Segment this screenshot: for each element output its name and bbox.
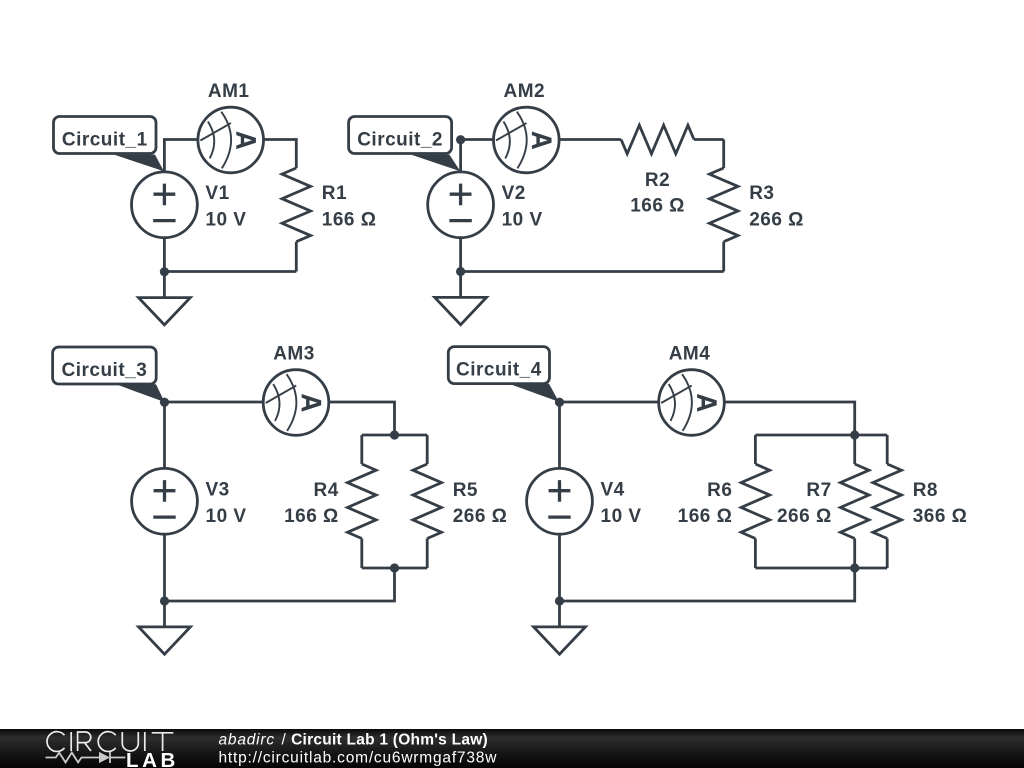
svg-text:266 Ω: 266 Ω — [749, 209, 804, 230]
svg-text:R4: R4 — [314, 480, 339, 501]
svg-text:http://circuitlab.com/cu6wrmga: http://circuitlab.com/cu6wrmgaf738w — [219, 749, 498, 766]
node junction circuit 2 top — [456, 135, 465, 144]
wire parallel top bar circuit 3 — [362, 434, 427, 437]
resistor R3 266 ohm — [709, 140, 804, 272]
svg-text:10 V: 10 V — [205, 209, 246, 230]
resistor R6 166 ohm — [678, 435, 770, 568]
ammeter AM1 — [198, 81, 264, 173]
voltage source V1 — [132, 172, 247, 238]
ammeter AM2 — [494, 81, 560, 173]
svg-text:R6: R6 — [707, 480, 732, 501]
voltage source V3 — [132, 468, 247, 534]
ground circuit 3 — [139, 601, 191, 654]
wire bottom rail circuit 2 — [461, 270, 724, 273]
ground circuit 1 — [139, 272, 191, 325]
svg-text:10 V: 10 V — [502, 209, 543, 230]
wire V1 top to AM1 — [164, 140, 197, 172]
svg-text:V2: V2 — [502, 183, 526, 204]
svg-text:R5: R5 — [453, 480, 478, 501]
resistor R1 166 ohm — [282, 140, 377, 272]
svg-text:Circuit_1: Circuit_1 — [62, 130, 148, 151]
resistor R7 266 ohm — [777, 435, 869, 568]
svg-text:R2: R2 — [645, 170, 670, 191]
node junction circuit 3 bottom — [160, 596, 169, 605]
svg-text:R3: R3 — [749, 183, 774, 204]
svg-text:V1: V1 — [205, 183, 229, 204]
ammeter AM3 — [263, 343, 329, 435]
label callout Circuit_2 — [349, 117, 461, 172]
node junction parallel bottom circuit 4 — [850, 563, 859, 572]
node junction parallel bottom circuit 3 — [390, 563, 399, 572]
resistor R4 166 ohm — [284, 435, 376, 568]
resistor R5 266 ohm — [413, 435, 508, 568]
wire V2 bottom — [459, 238, 462, 272]
label callout Circuit_3 — [53, 347, 165, 402]
wire V3 bottom — [163, 534, 166, 601]
svg-text:Circuit_3: Circuit_3 — [61, 360, 147, 381]
wire V4 bottom — [558, 534, 561, 601]
wire V3 top to AM3 — [165, 402, 264, 468]
svg-text:/: / — [282, 732, 287, 749]
svg-text:R8: R8 — [913, 480, 938, 501]
resistor R2 166 ohm (wire AM2-R2-corner) — [559, 125, 724, 216]
wire bottom rail circuit 1 — [164, 270, 296, 273]
svg-text:166 Ω: 166 Ω — [322, 209, 377, 230]
wire parallel bottom bar circuit 3 — [362, 567, 427, 570]
svg-text:AM3: AM3 — [273, 343, 315, 364]
label callout Circuit_1 — [54, 117, 164, 172]
svg-text:AM2: AM2 — [503, 81, 545, 102]
node junction circuit 3 top — [160, 398, 169, 407]
svg-text:V3: V3 — [206, 480, 230, 501]
resistor R8 366 ohm — [873, 435, 968, 568]
label callout Circuit_4 — [448, 347, 559, 402]
wire V2 top to AM2 — [461, 140, 494, 172]
svg-text:R7: R7 — [806, 480, 831, 501]
svg-text:Circuit_4: Circuit_4 — [456, 360, 542, 381]
wire V1 bottom — [163, 238, 166, 272]
voltage source V4 — [527, 468, 642, 534]
svg-text:266 Ω: 266 Ω — [777, 506, 832, 527]
ground circuit 2 — [435, 272, 487, 325]
wire AM4 to parallel top — [724, 402, 854, 435]
svg-text:10 V: 10 V — [206, 506, 247, 527]
node junction circuit 1 bottom — [160, 267, 169, 276]
node junction circuit 4 bottom — [555, 596, 564, 605]
node junction parallel top circuit 3 — [390, 430, 399, 439]
wire bottom rail circuit 4 — [560, 568, 855, 601]
svg-text:Circuit Lab 1 (Ohm's Law): Circuit Lab 1 (Ohm's Law) — [291, 732, 488, 749]
CircuitLab logo "CIRCUIT" — [47, 732, 173, 752]
svg-text:LAB: LAB — [126, 749, 179, 768]
svg-text:366 Ω: 366 Ω — [913, 506, 968, 527]
node junction parallel top circuit 4 — [850, 430, 859, 439]
wire parallel bottom bar circuit 4 — [755, 567, 887, 570]
CircuitLab logo resistor-diode squiggle — [46, 752, 126, 763]
wire V4 top to AM4 — [560, 402, 659, 468]
node junction circuit 2 bottom — [456, 267, 465, 276]
wire parallel top bar circuit 4 — [755, 434, 887, 437]
svg-text:10 V: 10 V — [601, 506, 642, 527]
voltage source V2 — [428, 172, 543, 238]
svg-text:Circuit_2: Circuit_2 — [357, 130, 443, 151]
svg-text:166 Ω: 166 Ω — [630, 195, 685, 216]
ground circuit 4 — [534, 601, 586, 654]
wire bottom rail circuit 3 — [165, 568, 395, 601]
svg-text:AM4: AM4 — [669, 343, 711, 364]
wire AM1 to R1 — [264, 140, 297, 141]
svg-text:166 Ω: 166 Ω — [284, 506, 339, 527]
wire AM3 to parallel pair top — [329, 402, 395, 435]
svg-text:R1: R1 — [322, 183, 347, 204]
svg-text:abadirc: abadirc — [219, 732, 275, 749]
svg-text:266 Ω: 266 Ω — [453, 506, 508, 527]
svg-text:AM1: AM1 — [208, 81, 250, 102]
svg-text:V4: V4 — [601, 480, 625, 501]
svg-text:166 Ω: 166 Ω — [678, 506, 733, 527]
footer title text — [219, 732, 488, 749]
ammeter AM4 — [659, 343, 725, 435]
node junction circuit 4 top — [555, 398, 564, 407]
